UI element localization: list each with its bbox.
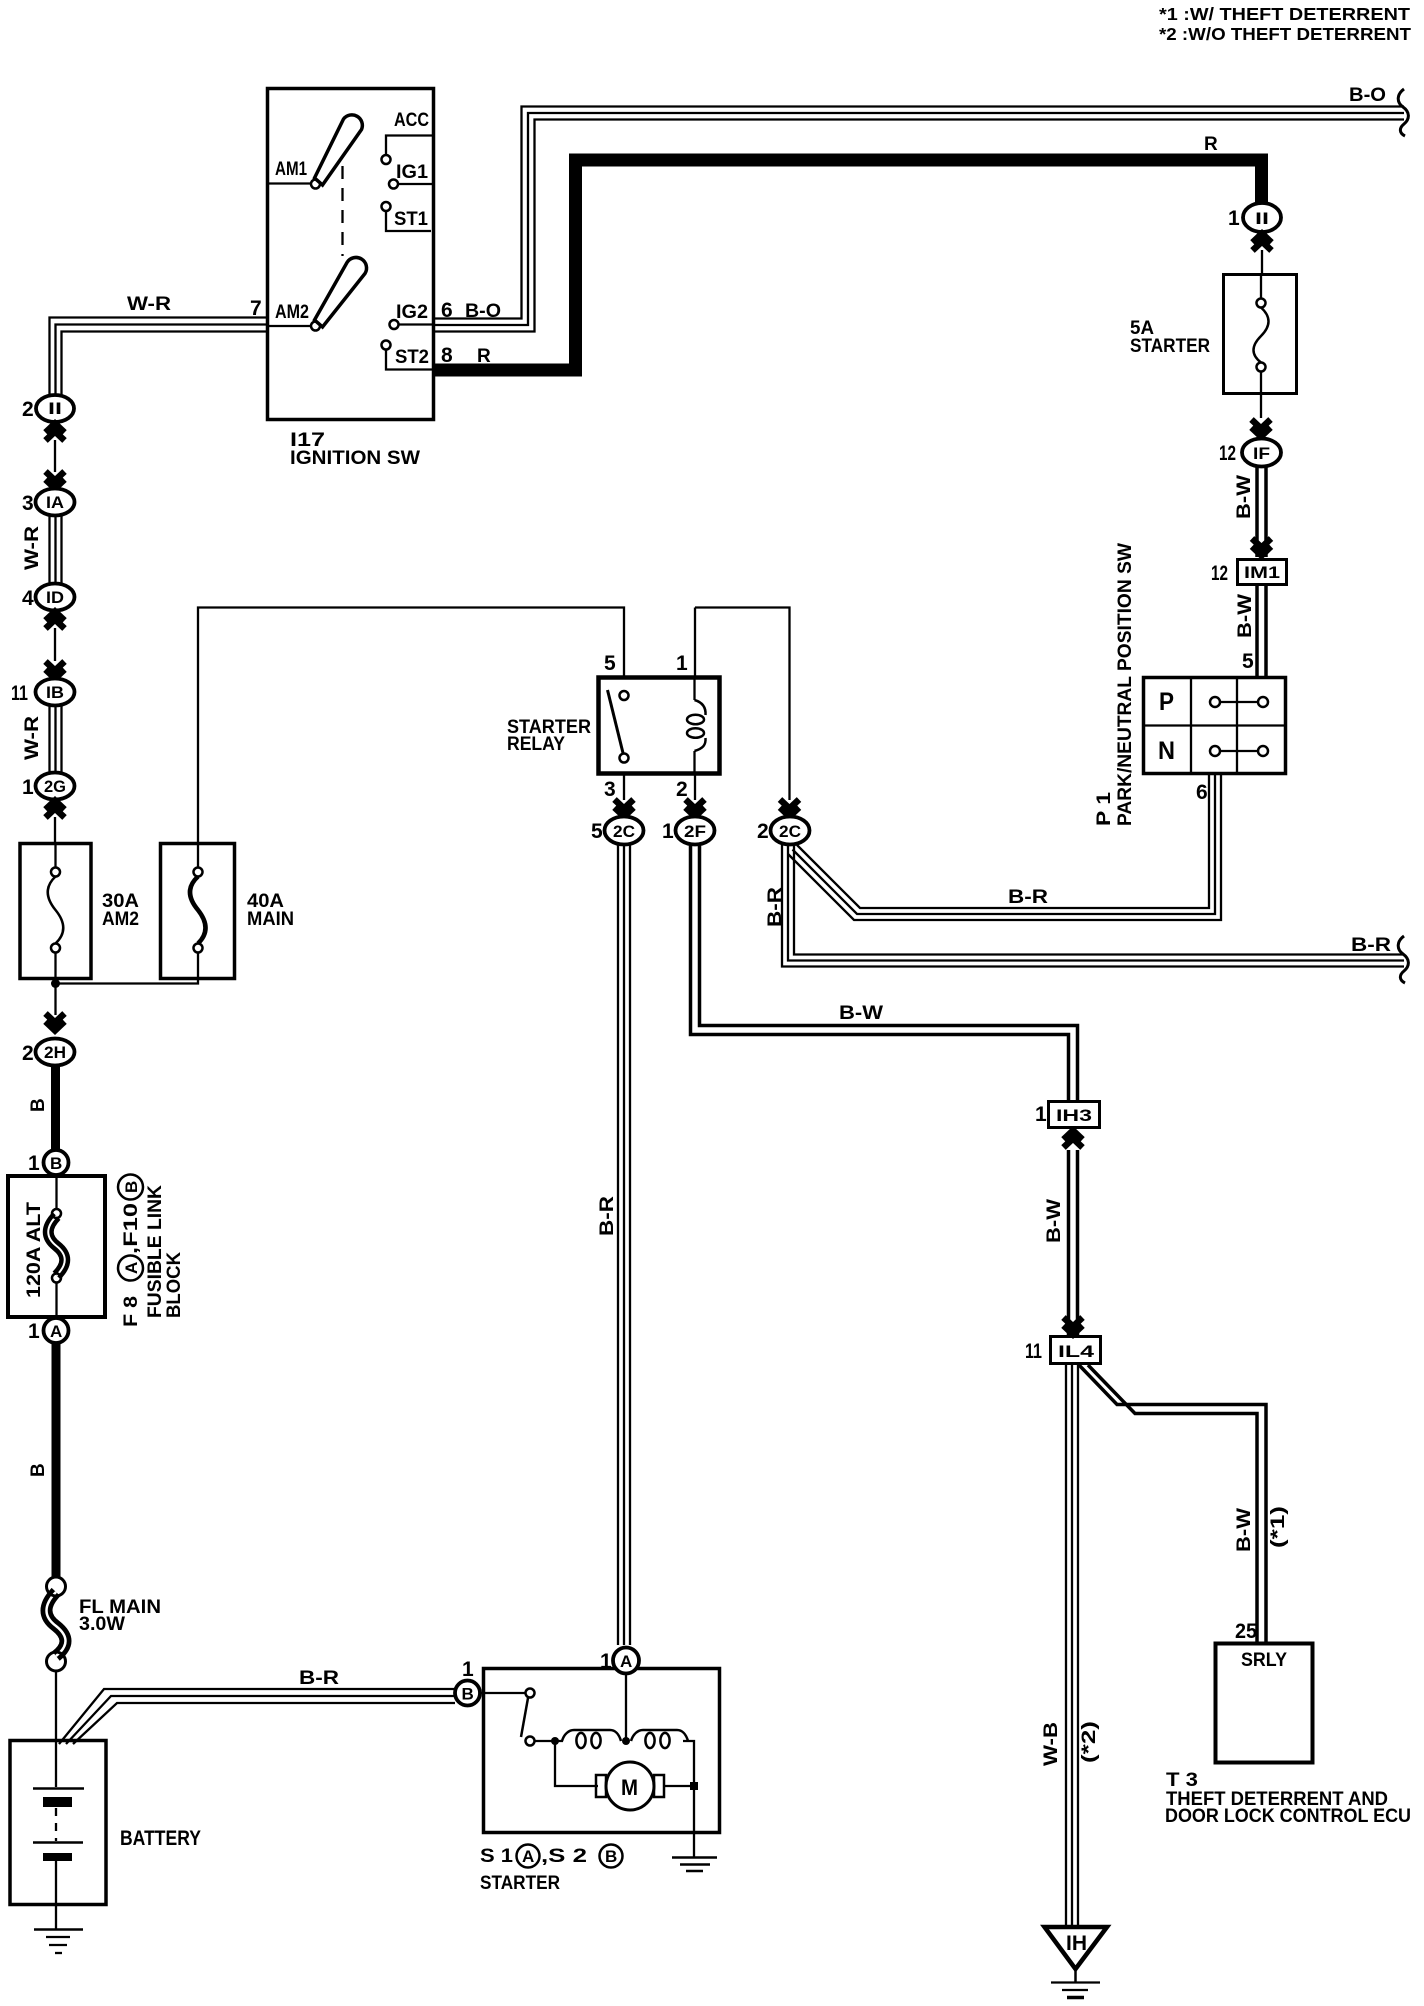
ignition switch I17 box: [268, 89, 434, 420]
fusible link FL MAIN symbol: [47, 1592, 66, 1656]
svg-text:3.0W: 3.0W: [79, 1614, 125, 1635]
wire B-O from IG2 to right edge (3-line bus): [433, 107, 1404, 319]
wire B-R 2 2C diagonal to park/neutral sw (3-line bus): [797, 774, 1209, 908]
fusible block label F8(A),F10(B) vertical: [118, 1175, 143, 1328]
pin ST1 contact and lead: [382, 202, 391, 211]
wire R thick from ST2 to connector II right: [433, 160, 1262, 370]
svg-text:2: 2: [22, 398, 34, 421]
svg-text:ST1: ST1: [394, 209, 428, 230]
wire label B vertical: [28, 1463, 49, 1477]
connector 12 IM1: [1238, 560, 1287, 585]
svg-text:*2 :W/O THEFT DETERRENT: *2 :W/O THEFT DETERRENT: [1159, 24, 1411, 44]
off-page arrow B-O: [1398, 89, 1408, 136]
svg-text:BLOCK: BLOCK: [164, 1252, 185, 1318]
battery box: [10, 1741, 106, 1905]
arrow up below II right: [1253, 234, 1272, 251]
pin IG2 contact and lead: [390, 320, 399, 329]
relay pin 1 wire up and over to connector 2C: [694, 608, 696, 678]
arrow down above IA: [46, 472, 65, 489]
svg-text:W-R: W-R: [22, 526, 43, 570]
svg-text:4: 4: [22, 587, 34, 610]
svg-text:BATTERY: BATTERY: [120, 1827, 201, 1850]
svg-text:B-R: B-R: [1008, 887, 1048, 908]
svg-text:RELAY: RELAY: [507, 734, 565, 755]
starter hold coil: [562, 1730, 621, 1741]
arrow down above IM1: [1252, 539, 1271, 556]
svg-text:25: 25: [1235, 1620, 1257, 1643]
svg-text:DOOR LOCK CONTROL ECU: DOOR LOCK CONTROL ECU: [1165, 1806, 1411, 1827]
label 120A ALT vertical: [24, 1202, 45, 1298]
wire B-R 5 2C down to starter terminal A (3-line bus): [617, 845, 619, 1645]
svg-text:IGNITION SW: IGNITION SW: [290, 448, 420, 469]
terminal A circle: [44, 1318, 69, 1343]
svg-text:B-W: B-W: [1044, 1199, 1065, 1243]
starter switch contact and arm: [480, 1692, 526, 1694]
svg-text:M: M: [621, 1775, 638, 1800]
arrow down above IL4: [1064, 1318, 1083, 1335]
svg-text:MAIN: MAIN: [247, 909, 294, 930]
svg-text:W-B: W-B: [1041, 1722, 1062, 1766]
svg-text:A: A: [50, 1322, 62, 1341]
svg-text:IL4: IL4: [1058, 1342, 1095, 1361]
svg-text:IA: IA: [46, 493, 64, 512]
wire B-R battery to starter terminal B (3-line bus): [59, 1689, 455, 1744]
svg-text:A: A: [122, 1262, 141, 1274]
label P 1 vertical: [1094, 791, 1115, 826]
wire label B-W vertical: [1234, 1508, 1255, 1552]
svg-text:W-R: W-R: [127, 294, 171, 315]
svg-text:FUSIBLE LINK: FUSIBLE LINK: [145, 1185, 166, 1318]
relay pin 3 wire down: [623, 774, 625, 800]
svg-text:IB: IB: [46, 683, 64, 702]
off-page arrow B-R: [1398, 936, 1408, 983]
svg-text:B-O: B-O: [1349, 85, 1386, 106]
connector 2 2C: [771, 817, 810, 845]
junction dot A: [622, 1737, 630, 1745]
wire label B-W vertical: [1044, 1199, 1065, 1243]
wire B-W IF to IM1 (2-line heavy bus): [1255, 466, 1259, 557]
svg-text:AM2: AM2: [275, 302, 309, 323]
svg-text:B-R: B-R: [299, 1668, 339, 1689]
wire label B-R vertical at 2C: [765, 887, 786, 927]
junction dot hold coil: [551, 1737, 559, 1745]
starter box: [484, 1669, 720, 1833]
svg-text:1: 1: [28, 1152, 40, 1175]
wire B-W 1 2F down and right (2-line heavy bus): [691, 845, 1069, 1101]
svg-text:B: B: [28, 1098, 49, 1112]
fusible link 120A symbol: [55, 1175, 57, 1209]
wire B-W IH3 to IL4 (2-line heavy bus): [1067, 1150, 1071, 1336]
svg-text:1: 1: [662, 820, 674, 843]
coil to right wire: [683, 1741, 694, 1786]
svg-text:W-R: W-R: [22, 716, 43, 760]
svg-text:5: 5: [604, 652, 616, 675]
svg-text:SRLY: SRLY: [1241, 1650, 1287, 1671]
relay coil: [693, 679, 695, 700]
svg-text:5: 5: [591, 820, 603, 843]
fusible block label BLOCK vertical: [164, 1252, 185, 1318]
svg-text:II: II: [1255, 209, 1269, 228]
svg-text:STARTER: STARTER: [1130, 336, 1210, 357]
svg-text:IM1: IM1: [1244, 563, 1280, 582]
svg-text:II: II: [48, 399, 62, 418]
svg-text:3: 3: [22, 492, 34, 515]
arrow up below ID: [46, 612, 65, 629]
svg-text:,F10: ,F10: [121, 1203, 142, 1254]
connector 11 IB: [36, 679, 75, 706]
svg-text:AM2: AM2: [102, 909, 139, 930]
svg-text:(*2): (*2): [1079, 1721, 1100, 1763]
svg-text:5: 5: [1242, 650, 1254, 673]
connector 2 II (left): [36, 395, 74, 422]
connector 1 II (right): [1243, 203, 1281, 232]
wire label (*1) vertical: [1268, 1506, 1289, 1548]
svg-text:2C: 2C: [779, 822, 801, 841]
svg-text:IF: IF: [1253, 444, 1270, 463]
svg-text:B: B: [122, 1181, 141, 1193]
arrow up below II: [46, 424, 65, 441]
connector 1 2F: [676, 817, 715, 845]
svg-text:1: 1: [600, 1650, 612, 1673]
wire B thick 2H to terminal B: [51, 1066, 60, 1149]
pin AM1 contact and lead: [311, 180, 320, 189]
P row contacts: [1210, 697, 1220, 707]
pin AM2 contact and lead: [311, 322, 320, 331]
wire B-W IL4 diagonal to SRLY (2-line heavy bus): [1079, 1365, 1266, 1643]
wire stub ID to IB: [54, 628, 56, 661]
svg-text:3: 3: [604, 778, 616, 801]
svg-text:2H: 2H: [44, 1043, 66, 1062]
svg-text:F 8: F 8: [121, 1296, 142, 1327]
starter pull-in coil: [631, 1730, 688, 1741]
arrow down above 5 2C: [615, 800, 634, 817]
wire label (*2) vertical: [1079, 1721, 1100, 1763]
svg-text:,S 2: ,S 2: [541, 1846, 587, 1867]
svg-text:11: 11: [11, 682, 28, 705]
connector 1 2G: [36, 773, 75, 800]
svg-text:IG1: IG1: [396, 162, 428, 183]
svg-text:B-R: B-R: [1351, 935, 1391, 956]
svg-text:B: B: [605, 1847, 617, 1866]
theft deterrent ECU box SRLY: [1216, 1644, 1313, 1763]
svg-text:2: 2: [22, 1042, 34, 1065]
svg-text:1: 1: [28, 1320, 40, 1343]
svg-text:12: 12: [1211, 562, 1228, 585]
battery internal plates: [55, 1742, 57, 1787]
ground lines below IH: [1074, 1967, 1077, 1982]
wire B-R 2 2C down to right edge (3-line bus): [782, 845, 1404, 967]
svg-text:1: 1: [1035, 1103, 1047, 1126]
svg-text:B: B: [50, 1154, 62, 1173]
wire W-R IB to 2G (3-line bus): [48, 705, 50, 773]
svg-text:R: R: [1204, 134, 1218, 155]
pin ACC contact and lead: [382, 155, 391, 164]
fuse 5A STARTER box: [1224, 275, 1297, 394]
wire label W-B vertical: [1041, 1722, 1062, 1766]
ground connector IH triangle: [1045, 1927, 1108, 1969]
svg-text:IH: IH: [1066, 1932, 1087, 1955]
svg-text:1: 1: [462, 1658, 474, 1681]
wire label B vertical: [28, 1098, 49, 1112]
wire label W-R vertical: [22, 526, 43, 570]
svg-text:N: N: [1158, 737, 1175, 765]
pin ST2 contact and lead: [382, 341, 391, 350]
svg-text:B: B: [462, 1685, 474, 1704]
svg-text:2G: 2G: [44, 777, 66, 796]
arrow up below IH3: [1064, 1131, 1083, 1148]
svg-text:(*1): (*1): [1268, 1506, 1289, 1548]
starter relay box: [599, 678, 720, 774]
relay switch contacts and arm: [620, 691, 629, 700]
svg-text:B-W: B-W: [1234, 1508, 1255, 1552]
wire B thick A to FL MAIN: [52, 1344, 61, 1577]
svg-text:ACC: ACC: [394, 110, 429, 131]
svg-text:T 3: T 3: [1166, 1770, 1198, 1791]
svg-text:2F: 2F: [684, 822, 706, 841]
svg-text:12: 12: [1219, 442, 1236, 465]
svg-text:B: B: [28, 1463, 49, 1477]
wire label B-R vertical: [597, 1196, 618, 1236]
ground below battery: [55, 1905, 57, 1929]
wire 2G to fuse 30A: [54, 817, 56, 843]
ground below starter: [672, 1856, 717, 1859]
wire label B-W vertical: [1234, 475, 1255, 519]
arrow down above IB: [46, 662, 65, 679]
svg-text:2: 2: [757, 820, 769, 843]
svg-text:6: 6: [1196, 781, 1208, 804]
svg-text:120A ALT: 120A ALT: [24, 1202, 45, 1298]
wire W-B IL4 down to IH ground (3-line bus): [1065, 1364, 1067, 1926]
svg-text:S 1: S 1: [480, 1846, 513, 1867]
arrow down above 1 2F: [686, 800, 705, 817]
connector 2 2H: [36, 1039, 75, 1066]
svg-text:1: 1: [22, 776, 34, 799]
wire 30A to junction: [54, 979, 56, 1015]
svg-text:B-W: B-W: [1235, 594, 1256, 638]
wire relay top to 2 2C: [695, 608, 790, 801]
svg-text:STARTER: STARTER: [480, 1873, 560, 1894]
svg-text:P: P: [1159, 688, 1174, 716]
svg-text:ST2: ST2: [395, 347, 429, 368]
svg-text:2C: 2C: [613, 822, 635, 841]
svg-text:ID: ID: [46, 588, 64, 607]
junction dot: [51, 979, 60, 988]
relay pin 2 wire down: [694, 774, 696, 800]
wire switch to motor: [555, 1741, 598, 1786]
switch wiper AM1 wedge: [315, 115, 363, 185]
wire label B-W vertical: [1235, 594, 1256, 638]
wire motor right to ground: [664, 1786, 694, 1857]
svg-text:A: A: [522, 1847, 534, 1866]
junction square motor right: [690, 1782, 698, 1790]
svg-text:2: 2: [676, 778, 688, 801]
label PARK/NEUTRAL POSITION SW vertical: [1115, 543, 1136, 826]
N row contacts: [1210, 746, 1220, 756]
fusible block label FUSIBLE LINK vertical: [145, 1185, 166, 1318]
svg-text:B-R: B-R: [597, 1196, 618, 1236]
arrow down above 2 2C: [780, 800, 799, 817]
svg-text:IH3: IH3: [1056, 1106, 1092, 1125]
fusible link block 120A ALT box: [8, 1176, 105, 1317]
wire stub II to IA: [54, 440, 56, 472]
switch link dashed line: [341, 166, 343, 256]
fuse 30A AM2 box: [20, 844, 91, 979]
svg-text:B-W: B-W: [1234, 475, 1255, 519]
svg-text:*1 :W/ THEFT DETERRENT: *1 :W/ THEFT DETERRENT: [1159, 4, 1410, 24]
svg-text:IG2: IG2: [396, 302, 428, 323]
switch wiper AM2 wedge: [315, 257, 367, 327]
svg-text:1: 1: [1228, 207, 1240, 230]
park/neutral position switch P1 box: [1144, 678, 1286, 774]
wire FL MAIN to battery: [55, 1671, 57, 1740]
wire W-R from AM2 to connector II (3-line bus): [50, 318, 268, 398]
connector 11 IL4: [1051, 1337, 1101, 1364]
connector 12 IF: [1242, 439, 1281, 467]
wire W-R IA to ID (3-line bus): [48, 515, 50, 584]
arrow up below 2G: [46, 801, 65, 818]
svg-text:PARK/NEUTRAL POSITION SW: PARK/NEUTRAL POSITION SW: [1115, 543, 1136, 826]
svg-text:P 1: P 1: [1094, 791, 1115, 826]
wire 40A MAIN up to starter relay pin 5: [198, 608, 624, 844]
wire fuse to IF: [1260, 394, 1262, 418]
svg-text:B-W: B-W: [839, 1003, 883, 1024]
connector 1 IH3: [1049, 1102, 1100, 1128]
motor M: [606, 1762, 654, 1810]
fuse 40A MAIN box: [161, 844, 235, 979]
svg-text:AM1: AM1: [275, 159, 307, 180]
arrow down above 2H: [46, 1014, 65, 1031]
svg-text:11: 11: [1025, 1340, 1042, 1363]
arrow down above 12 IF: [1252, 420, 1271, 437]
svg-text:A: A: [620, 1652, 632, 1671]
starter terminal A circle: [613, 1648, 639, 1674]
wire label W-R vertical: [22, 716, 43, 760]
wire II to fuse 5A: [1261, 250, 1263, 274]
terminal B circle: [44, 1150, 69, 1175]
connector 5 2C: [605, 817, 644, 845]
svg-text:1: 1: [676, 652, 688, 675]
wire junction to 40A bottom: [56, 979, 199, 984]
wire A down to coils: [625, 1674, 627, 1741]
connector 4 ID: [36, 584, 75, 611]
connector 3 IA: [36, 489, 75, 516]
starter terminal B circle: [455, 1681, 480, 1706]
wire B-W IM1 to park/neutral sw (2-line heavy bus): [1255, 585, 1259, 677]
pin IG1 contact and lead: [389, 180, 398, 189]
